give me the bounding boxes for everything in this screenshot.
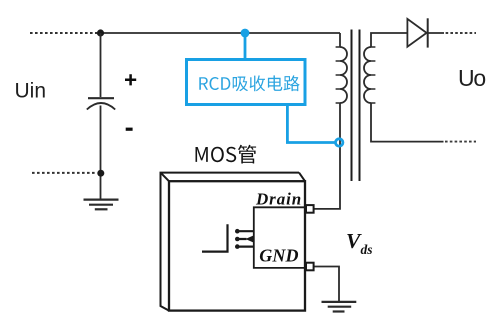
MOS package 3D box outer edges bbox=[161, 173, 306, 311]
svg-text:ds: ds bbox=[361, 242, 373, 257]
wire: top rail dashed lead-in bbox=[30, 32, 97, 34]
wire: cyan from box to drain node bbox=[287, 104, 334, 143]
transformer primary winding bbox=[340, 47, 347, 103]
die inner rectangle bbox=[254, 207, 305, 268]
wire: input cap top lead bbox=[100, 33, 102, 97]
MOS package front face bbox=[169, 181, 305, 310]
label MOS管 bbox=[196, 145, 257, 164]
wire: primary top lead bbox=[339, 33, 341, 47]
svg-text:Drain: Drain bbox=[255, 189, 302, 208]
diode D1 bbox=[407, 19, 426, 47]
wire: cap bottom lead bbox=[100, 106, 102, 200]
MOSFET gate lead bbox=[202, 224, 228, 251]
capacitor C-in curved plate bbox=[87, 103, 115, 110]
svg-text:GND: GND bbox=[259, 245, 298, 265]
wire: drain vertical (primary bottom to drain pin) bbox=[314, 103, 340, 209]
MOSFET channel stubs bbox=[237, 231, 254, 246]
MOSFET body arrow bbox=[245, 235, 254, 242]
transformer secondary winding bbox=[364, 47, 371, 103]
polarity minus bbox=[126, 128, 133, 131]
RCD snubber cyan net: tap dot on top rail bbox=[241, 29, 250, 38]
pin: gnd bbox=[306, 263, 314, 271]
svg-text:Uo: Uo bbox=[458, 65, 485, 91]
wire: secondary bottom lead bbox=[371, 103, 444, 142]
wire: secondary top lead bbox=[371, 33, 407, 47]
svg-text:Uin: Uin bbox=[15, 79, 47, 102]
wire: bottom-left dashed lead-in bbox=[32, 172, 96, 174]
wire: top rail solid bbox=[99, 32, 340, 34]
RCD snubber box bbox=[187, 60, 306, 105]
node: input junction dot bbox=[97, 29, 104, 36]
label RCD吸收电路 bbox=[199, 75, 299, 91]
transformer core bbox=[351, 30, 353, 182]
wire: cyan drop to RCD box bbox=[244, 33, 247, 59]
polarity plus bbox=[125, 74, 136, 85]
node: cyan ring junction at drain bbox=[336, 139, 343, 146]
wire: gnd pin to ground bbox=[314, 267, 339, 302]
capacitor C-in top plate bbox=[88, 97, 114, 99]
ground: power stage bbox=[322, 301, 357, 303]
pin: drain bbox=[306, 205, 314, 213]
wire: diode output bbox=[428, 32, 444, 34]
ground: input side bbox=[84, 199, 119, 201]
node: bottom-left junction dot bbox=[97, 170, 104, 177]
